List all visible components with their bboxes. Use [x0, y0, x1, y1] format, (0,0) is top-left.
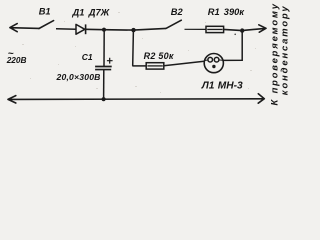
- capacitor C1 top lead: [103, 30, 105, 67]
- svg-text:конденсатору: конденсатору: [279, 5, 290, 96]
- wire diode to B2 (top rail): [86, 28, 166, 30]
- switch B2 lever: [166, 20, 181, 28]
- svg-text:R2 50к: R2 50к: [144, 51, 174, 61]
- svg-text:390к: 390к: [224, 7, 246, 17]
- wire lamp to output node: [223, 31, 242, 61]
- diode D1 triangle: [76, 24, 85, 34]
- resistor R2 body: [146, 63, 164, 69]
- small speck: [234, 34, 236, 36]
- wire to R2: [132, 65, 146, 67]
- svg-text:Д7Ж: Д7Ж: [88, 7, 111, 17]
- junction node output: [240, 28, 244, 32]
- svg-text:С1: С1: [82, 52, 93, 62]
- neon lamp L1 envelope: [204, 54, 223, 73]
- junction node at C1 top: [102, 28, 106, 32]
- svg-text:220В: 220В: [6, 55, 27, 65]
- svg-text:Л1: Л1: [201, 81, 215, 92]
- svg-text:20,0×300В: 20,0×300В: [56, 72, 101, 82]
- lamp right electrode: [214, 57, 219, 62]
- resistor R1 body: [206, 26, 224, 32]
- wire R1 to output node: [224, 29, 241, 30]
- wire R2 to lamp: [164, 61, 204, 65]
- svg-text:Д1: Д1: [72, 7, 85, 17]
- diode D1 cathode bar: [85, 24, 87, 34]
- output arrow top-right: [244, 25, 266, 32]
- switch B1 lever: [39, 21, 54, 29]
- svg-text:R1: R1: [208, 7, 220, 17]
- bottom rail with arrows both ends: [8, 94, 264, 104]
- wire B1 contact to diode: [56, 28, 76, 30]
- svg-text:В1: В1: [39, 7, 51, 17]
- plus sign of C1: [107, 58, 113, 64]
- R2 branch vertical wire: [132, 30, 135, 66]
- svg-text:В2: В2: [171, 7, 184, 17]
- lamp left electrode: [204, 59, 208, 62]
- input arrow top-left (to ~220V mains): [10, 24, 39, 32]
- junction node at R2 top: [131, 28, 135, 32]
- wire B2 contact to R1: [185, 28, 207, 30]
- junction node C1 bottom: [102, 97, 106, 101]
- capacitor C1 plates: [95, 67, 112, 70]
- capacitor C1 bottom lead: [103, 70, 105, 100]
- svg-text:МН-3: МН-3: [218, 81, 243, 92]
- lamp gas dot: [212, 65, 215, 68]
